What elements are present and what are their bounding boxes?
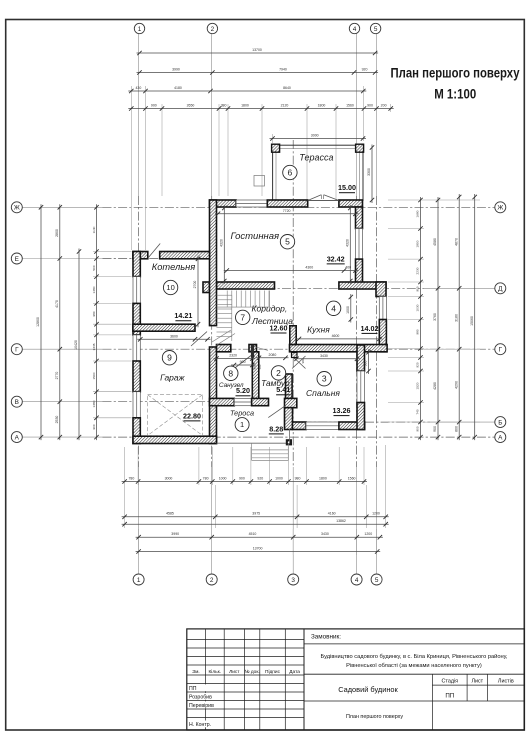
svg-text:Ж: Ж [497, 205, 503, 212]
svg-text:1680: 1680 [416, 210, 420, 217]
svg-text:10420: 10420 [74, 340, 78, 350]
svg-text:4870: 4870 [454, 238, 458, 246]
svg-text:4320: 4320 [346, 239, 350, 247]
svg-text:1560: 1560 [348, 476, 356, 480]
svg-text:1000: 1000 [275, 476, 283, 480]
svg-text:А: А [498, 434, 503, 441]
svg-text:12.60: 12.60 [270, 323, 288, 332]
svg-text:2080: 2080 [269, 353, 277, 357]
svg-text:Замовник:: Замовник: [311, 634, 341, 641]
svg-text:920: 920 [362, 67, 368, 71]
svg-text:980: 980 [92, 311, 96, 316]
svg-text:Гараж: Гараж [160, 372, 186, 382]
svg-text:Г: Г [15, 347, 19, 354]
svg-text:500: 500 [258, 364, 262, 369]
svg-text:1560: 1560 [346, 103, 354, 107]
svg-text:№ док.: № док. [244, 669, 259, 675]
svg-text:7: 7 [240, 312, 245, 322]
svg-text:1800: 1800 [416, 240, 420, 247]
svg-text:5: 5 [374, 26, 378, 33]
svg-text:5.41: 5.41 [276, 385, 290, 394]
svg-text:1800: 1800 [241, 103, 249, 107]
svg-text:Розробив: Розробив [189, 694, 212, 700]
svg-text:4170: 4170 [55, 300, 59, 308]
svg-text:Тероса: Тероса [230, 408, 254, 417]
svg-text:1140: 1140 [92, 226, 96, 233]
svg-text:4585: 4585 [166, 512, 174, 516]
svg-text:1380: 1380 [92, 400, 96, 407]
svg-text:Б: Б [498, 419, 502, 426]
svg-text:400: 400 [345, 266, 351, 270]
svg-text:План першого поверху: План першого поверху [391, 65, 520, 80]
svg-text:9: 9 [167, 353, 172, 363]
svg-text:1500: 1500 [92, 372, 96, 379]
svg-text:2700: 2700 [193, 281, 197, 289]
svg-text:13700: 13700 [253, 546, 263, 550]
svg-text:15.00: 15.00 [338, 183, 356, 192]
svg-text:Лист: Лист [471, 678, 483, 684]
svg-text:Котельня: Котельня [152, 262, 196, 272]
svg-text:3975: 3975 [252, 512, 260, 516]
svg-text:Кухня: Кухня [307, 324, 330, 334]
svg-text:920: 920 [416, 362, 420, 367]
svg-text:Кільк.: Кільк. [209, 669, 222, 675]
svg-text:3000: 3000 [165, 476, 173, 480]
svg-text:13862: 13862 [336, 519, 346, 523]
svg-text:М 1:100: М 1:100 [434, 87, 476, 102]
svg-text:13.26: 13.26 [333, 406, 351, 415]
svg-text:2: 2 [211, 26, 215, 33]
svg-text:1800: 1800 [319, 476, 327, 480]
svg-text:980: 980 [364, 361, 368, 367]
svg-text:3180: 3180 [454, 314, 458, 322]
svg-text:4: 4 [331, 303, 336, 313]
svg-text:4160: 4160 [328, 512, 336, 516]
svg-text:2120: 2120 [281, 103, 289, 107]
svg-text:Перевірив: Перевірив [189, 703, 214, 709]
svg-text:430: 430 [135, 86, 141, 90]
svg-text:Спальня: Спальня [306, 388, 340, 398]
svg-text:5: 5 [285, 237, 290, 247]
svg-text:2530: 2530 [55, 416, 59, 424]
svg-text:Дата: Дата [289, 669, 300, 675]
svg-text:3430: 3430 [321, 532, 329, 536]
svg-text:980: 980 [295, 476, 301, 480]
svg-text:1030: 1030 [416, 304, 420, 311]
svg-text:Коридор,: Коридор, [252, 303, 288, 313]
svg-text:8640: 8640 [283, 86, 291, 90]
svg-text:2320: 2320 [229, 354, 237, 358]
svg-text:4: 4 [353, 26, 357, 33]
svg-text:1000: 1000 [219, 476, 227, 480]
svg-text:4580: 4580 [433, 238, 437, 246]
svg-text:Стадія: Стадія [442, 678, 459, 684]
svg-text:Лист: Лист [229, 669, 240, 675]
svg-text:900: 900 [239, 476, 245, 480]
svg-text:3990: 3990 [171, 532, 179, 536]
svg-text:22.80: 22.80 [183, 411, 201, 420]
svg-text:Садовий будинок: Садовий будинок [338, 685, 398, 694]
svg-text:1800: 1800 [318, 103, 326, 107]
svg-text:780: 780 [203, 476, 209, 480]
svg-text:1345: 1345 [92, 343, 96, 350]
svg-text:200: 200 [381, 103, 387, 107]
svg-text:1480: 1480 [92, 286, 96, 293]
svg-text:Терасса: Терасса [299, 152, 333, 162]
svg-text:В: В [15, 399, 19, 406]
svg-text:14.21: 14.21 [174, 311, 192, 320]
svg-text:4: 4 [355, 577, 359, 584]
svg-text:2650: 2650 [187, 103, 195, 107]
svg-text:500: 500 [92, 265, 96, 270]
svg-text:900: 900 [367, 103, 373, 107]
svg-text:Зм.: Зм. [192, 669, 200, 675]
svg-text:900: 900 [151, 103, 157, 107]
svg-text:Ж: Ж [14, 205, 20, 212]
svg-text:3: 3 [291, 577, 295, 584]
svg-text:ПП: ПП [189, 686, 197, 692]
svg-text:3990: 3990 [172, 67, 180, 71]
svg-text:3300: 3300 [367, 168, 371, 176]
svg-text:4510: 4510 [249, 532, 257, 536]
svg-text:1200: 1200 [372, 512, 380, 516]
svg-text:3000: 3000 [311, 133, 319, 137]
svg-text:740: 740 [416, 409, 420, 414]
svg-text:4320: 4320 [220, 239, 224, 247]
svg-text:900: 900 [240, 360, 246, 364]
svg-text:3600: 3600 [170, 335, 178, 339]
svg-text:32.42: 32.42 [327, 254, 345, 263]
svg-text:Г: Г [499, 347, 503, 354]
svg-text:2: 2 [210, 577, 214, 584]
svg-text:2800: 2800 [55, 229, 59, 237]
svg-text:План першого поверху: План першого поверху [346, 714, 403, 720]
svg-text:5.20: 5.20 [236, 386, 250, 395]
svg-text:3430: 3430 [320, 354, 328, 358]
svg-text:2770: 2770 [55, 372, 59, 380]
svg-text:2230: 2230 [416, 267, 420, 274]
svg-text:380: 380 [221, 103, 227, 107]
svg-text:4180: 4180 [174, 86, 182, 90]
svg-text:6: 6 [288, 168, 293, 178]
svg-text:4280: 4280 [433, 382, 437, 390]
svg-text:Листів: Листів [498, 678, 514, 684]
svg-text:1: 1 [240, 420, 244, 429]
svg-text:4290: 4290 [454, 381, 458, 389]
svg-text:8: 8 [228, 368, 233, 378]
svg-text:13700: 13700 [252, 48, 262, 52]
svg-text:7940: 7940 [279, 67, 287, 71]
svg-text:4600: 4600 [332, 334, 340, 338]
svg-text:Д: Д [498, 286, 503, 293]
svg-text:Підпис: Підпис [265, 669, 281, 675]
svg-text:14.02: 14.02 [361, 324, 379, 333]
svg-text:1000: 1000 [346, 306, 350, 314]
svg-text:15060: 15060 [470, 316, 474, 326]
svg-text:ПП: ПП [445, 693, 454, 700]
svg-text:8.28: 8.28 [269, 424, 283, 433]
svg-text:1: 1 [138, 26, 142, 33]
svg-text:Н. Контр.: Н. Контр. [189, 722, 211, 728]
svg-text:900: 900 [433, 426, 437, 432]
svg-text:А: А [15, 434, 20, 441]
svg-text:900: 900 [92, 424, 96, 429]
svg-text:900: 900 [416, 426, 420, 431]
svg-text:5: 5 [375, 577, 379, 584]
svg-text:2: 2 [276, 368, 281, 378]
svg-text:Гостинная: Гостинная [230, 231, 279, 242]
svg-text:1200: 1200 [364, 532, 372, 536]
svg-text:780: 780 [128, 476, 134, 480]
svg-text:900: 900 [416, 286, 420, 291]
svg-text:12800: 12800 [36, 317, 40, 327]
svg-text:1: 1 [137, 577, 141, 584]
svg-text:10: 10 [166, 283, 174, 292]
svg-text:4300: 4300 [305, 266, 313, 270]
svg-text:3760: 3760 [433, 313, 437, 321]
svg-text:Будівництво садового будинку,: Будівництво садового будинку, в с. Біла … [321, 653, 508, 660]
svg-text:980: 980 [416, 329, 420, 334]
svg-text:Рівненської області (за межами: Рівненської області (за межами населеног… [346, 663, 482, 669]
svg-text:3: 3 [322, 374, 327, 384]
svg-text:950: 950 [253, 364, 257, 369]
svg-text:920: 920 [257, 476, 263, 480]
svg-text:Е: Е [15, 256, 19, 263]
svg-text:7720: 7720 [283, 209, 291, 213]
svg-text:1520: 1520 [416, 382, 420, 389]
svg-text:800: 800 [454, 426, 458, 432]
